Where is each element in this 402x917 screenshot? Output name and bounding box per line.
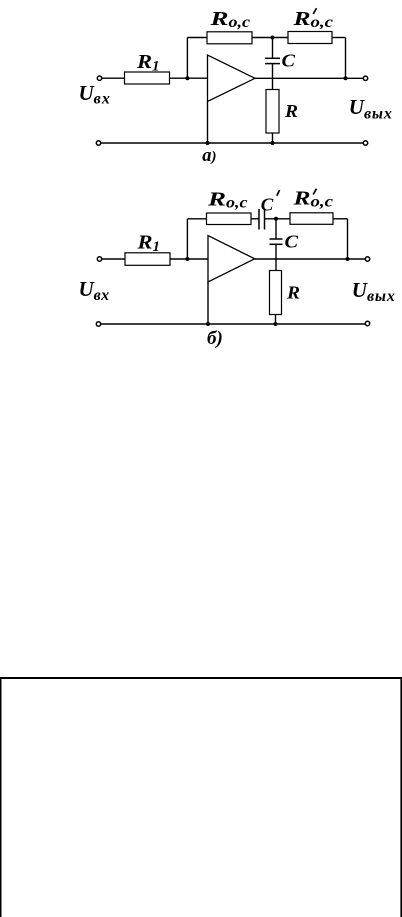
wire R1 to op-amp input (b) bbox=[170, 258, 208, 260]
bottom terminal left (a) bbox=[96, 141, 100, 145]
bottom frame rectangle bbox=[0, 677, 402, 917]
bottom rail junction dot left (a) bbox=[206, 141, 210, 145]
svg-text:б): б) bbox=[207, 328, 223, 349]
wire op-amp output (a) bbox=[255, 77, 363, 79]
wire feedback horizontal to Ro,c (b) bbox=[187, 218, 206, 220]
svg-text:C: C bbox=[282, 51, 297, 71]
output terminal top (a) bbox=[363, 76, 367, 80]
node junction dot output (a) bbox=[344, 76, 348, 80]
node A junction dot (a) bbox=[185, 76, 189, 80]
bottom rail junction dot left (b) bbox=[206, 322, 210, 326]
svg-text:C: C bbox=[285, 232, 300, 252]
resistor Ro,c (a) bbox=[207, 32, 252, 44]
node junction dot top (a) bbox=[271, 36, 275, 40]
wire Ro,c to R'o,c (a) bbox=[252, 37, 288, 39]
svg-text:R: R bbox=[284, 101, 298, 121]
bottom terminal right (a) bbox=[363, 141, 367, 145]
capacitor C plates (b) bbox=[270, 238, 283, 240]
node A junction dot (b) bbox=[185, 257, 189, 261]
svg-text:R: R bbox=[286, 283, 300, 303]
prime mark of C' (b) bbox=[277, 190, 280, 196]
bottom rail (a) bbox=[101, 142, 363, 144]
wire R to bottom rail (a) bbox=[272, 133, 274, 143]
input terminal Uвх (top, b) bbox=[97, 257, 101, 261]
wire node to capacitor C (a) bbox=[272, 38, 274, 59]
node junction dot output (b) bbox=[346, 257, 350, 261]
wire input to R1 (a) bbox=[102, 77, 125, 79]
wire capacitor to resistor R (a) bbox=[272, 64, 274, 90]
resistor R'o,c (b) bbox=[290, 213, 333, 225]
wire op-amp output (b) bbox=[255, 258, 365, 260]
svg-text:а): а) bbox=[202, 146, 216, 166]
wire R'o,c to right corner (b) bbox=[333, 218, 348, 220]
wire Ro,c to C' (b) bbox=[251, 218, 259, 220]
wire right vertical down (b) bbox=[347, 219, 349, 259]
op-amp U2 triangle (b) bbox=[208, 236, 255, 283]
op-amp U1 triangle (a) bbox=[208, 55, 256, 102]
prime mark of R'o,c (a) bbox=[313, 8, 316, 14]
wire input to R1 (b) bbox=[102, 258, 125, 260]
resistor R1 (a) bbox=[125, 72, 170, 84]
wire feedback vertical left (b) bbox=[186, 219, 188, 259]
bottom rail junction dot right (a) bbox=[271, 141, 275, 145]
capacitor C plates (a) bbox=[265, 57, 280, 59]
wire node to capacitor C (b) bbox=[275, 219, 277, 239]
resistor R (b) bbox=[270, 271, 282, 315]
wire R'o,c to right corner (a) bbox=[332, 37, 346, 39]
input terminal Uвх (top, a) bbox=[97, 76, 101, 80]
wire R to bottom rail (b) bbox=[275, 315, 277, 325]
resistor R (a) bbox=[266, 90, 279, 134]
wire feedback vertical left (a) bbox=[186, 38, 188, 79]
prime mark of R'o,c (b) bbox=[313, 189, 316, 195]
wire R1 to op-amp input (a) bbox=[170, 77, 208, 79]
wire op-amp to bottom rail (a) bbox=[207, 102, 209, 144]
svg-text:C: C bbox=[261, 195, 275, 215]
wire op-amp to bottom rail (b) bbox=[207, 282, 209, 324]
wire right vertical down (a) bbox=[345, 38, 347, 79]
bottom rail junction dot right (b) bbox=[274, 322, 278, 326]
node junction dot top (b) bbox=[274, 217, 278, 221]
resistor R1 (b) bbox=[125, 253, 170, 265]
wire capacitor to resistor R (b) bbox=[275, 244, 277, 270]
bottom terminal right (b) bbox=[365, 321, 369, 325]
output terminal top (b) bbox=[365, 257, 369, 261]
capacitor C' plates (b) bbox=[258, 209, 260, 230]
bottom rail (b) bbox=[101, 323, 365, 325]
resistor Ro,c (b) bbox=[207, 213, 252, 225]
bottom terminal left (b) bbox=[96, 322, 100, 326]
resistor R'o,c (a) bbox=[288, 32, 332, 44]
wire feedback horizontal to Ro,c (a) bbox=[187, 37, 207, 39]
wire C' to R'o,c (b) bbox=[265, 218, 291, 220]
